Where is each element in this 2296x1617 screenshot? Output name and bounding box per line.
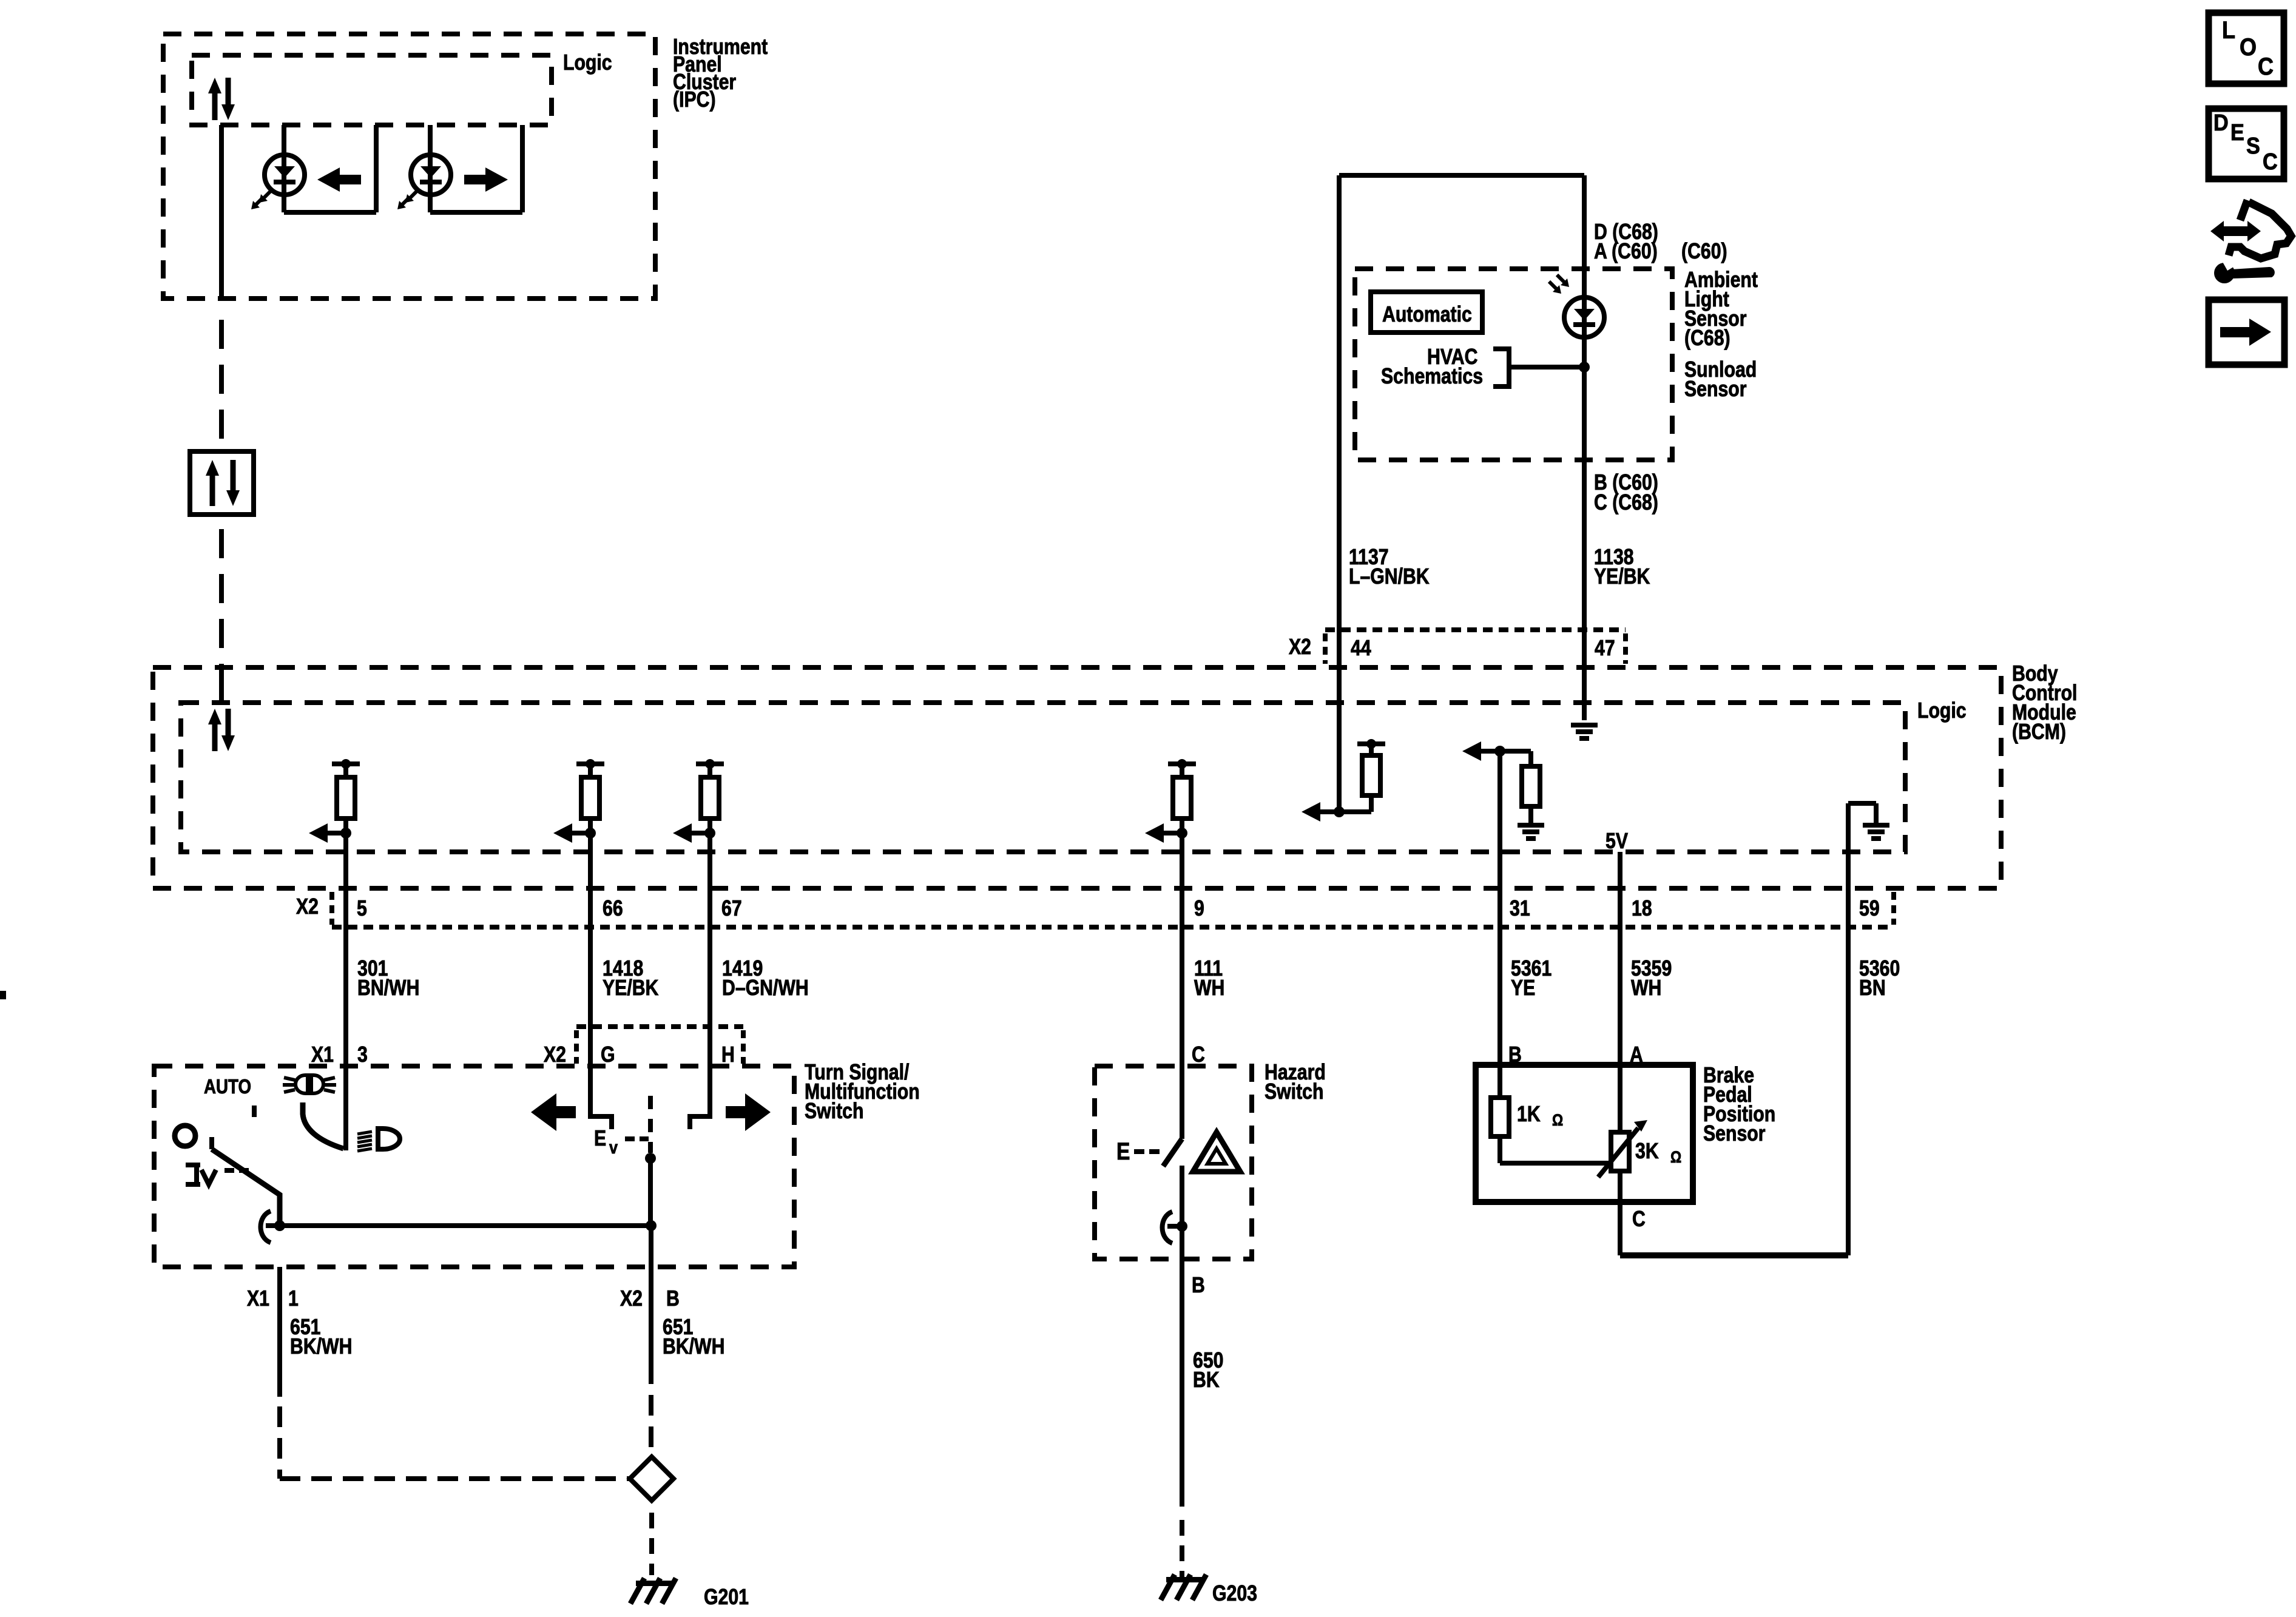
svg-text:YE/BK: YE/BK <box>1594 565 1650 589</box>
svg-text:1K: 1K <box>1517 1102 1541 1127</box>
hazard actuator dashes <box>1134 1149 1160 1154</box>
svg-text:C: C <box>1632 1207 1646 1232</box>
DESC icon box <box>2209 109 2284 179</box>
turn switch actuator dashed stem <box>648 1096 653 1153</box>
left turn LED emission arrows <box>251 191 271 209</box>
svg-text:67: 67 <box>721 897 742 921</box>
ground G203 <box>1161 1575 1206 1600</box>
G203 label <box>1212 1582 1257 1606</box>
pull-up resistor for pin 9 <box>1145 759 1196 843</box>
Sunload Sensor label <box>1684 358 1757 402</box>
3K ohm label <box>1635 1139 1681 1167</box>
wire 1418 label <box>603 957 658 1001</box>
svg-text:5: 5 <box>357 897 367 921</box>
pin 47 label <box>1595 636 1615 661</box>
svg-text:v: v <box>609 1137 618 1158</box>
connector separator left of pin 44 <box>1323 633 1328 664</box>
svg-text:G201: G201 <box>704 1585 749 1610</box>
wire 111 label <box>1194 957 1224 1001</box>
svg-text:(C68): (C68) <box>1684 326 1730 351</box>
3K potentiometer body <box>1611 1132 1629 1171</box>
wire from switch to X2 B <box>649 1226 653 1311</box>
turn switch centre post wire <box>648 1158 653 1226</box>
right turn indicator LED loop wire <box>430 125 522 212</box>
svg-text:X1: X1 <box>247 1287 269 1311</box>
svg-text:WH: WH <box>1194 976 1224 1001</box>
auto icon rays <box>283 1078 336 1092</box>
wire 5360 BN <box>1846 930 1851 1255</box>
right turn indicator LED <box>411 155 451 195</box>
X2 B connector labels <box>620 1287 680 1311</box>
pin 59 label <box>1859 897 1880 921</box>
headlamp switch common contact arc <box>261 1211 280 1243</box>
wire 5359 label <box>1631 957 1672 1001</box>
wire 650 solid segment <box>1180 1259 1184 1507</box>
IPC label text <box>673 35 768 112</box>
hazard warning triangle <box>1193 1132 1240 1172</box>
svg-text:A (C60): A (C60) <box>1594 240 1658 264</box>
wire 1138 label <box>1594 545 1650 589</box>
pin 59 internal ground wire <box>1848 803 1876 930</box>
pull-up resistor for pin 5 <box>309 759 360 843</box>
svg-text:C: C <box>1192 1043 1205 1067</box>
svg-text:18: 18 <box>1632 897 1652 921</box>
right turn indicator arrow symbol <box>464 167 508 192</box>
svg-text:YE: YE <box>1511 976 1535 1001</box>
svg-text:WH: WH <box>1631 976 1661 1001</box>
Hazard Switch label <box>1264 1061 1326 1104</box>
svg-text:L: L <box>2222 17 2235 44</box>
svg-text:59: 59 <box>1859 897 1880 921</box>
svg-text:O: O <box>2240 34 2257 61</box>
svg-text:Sensor: Sensor <box>1703 1122 1766 1146</box>
pull-up resistor for pin 66 <box>553 759 604 843</box>
X2 G H connector labels <box>544 1043 735 1067</box>
svg-text:X2: X2 <box>296 895 319 919</box>
svg-text:3: 3 <box>357 1043 368 1067</box>
wire 1137 L-GN/BK vertical <box>1337 175 1342 812</box>
serial data wire into BCM logic <box>219 665 224 704</box>
IPC serial data up/down arrows <box>208 78 235 120</box>
Brake Pedal Position Sensor box <box>1476 1065 1693 1202</box>
svg-text:D: D <box>2213 109 2229 135</box>
forward arrow icon box <box>2209 300 2284 365</box>
turn switch G fixed contact <box>590 1066 612 1129</box>
potentiometer wiper arrow <box>1598 1120 1647 1177</box>
BCM serial data up/down arrows <box>208 709 235 751</box>
connector separator right of pin 59 <box>1891 892 1896 925</box>
svg-text:H: H <box>721 1043 735 1067</box>
pin labels D (C68) / A (C60) <box>1594 220 1658 264</box>
Ambient Light Sensor (C68) label <box>1684 268 1758 351</box>
left turn arrow in switch <box>531 1093 576 1131</box>
BPPS pin B label <box>1508 1043 1522 1067</box>
svg-text:C (C68): C (C68) <box>1594 491 1658 515</box>
pin 31 label <box>1510 897 1530 921</box>
pin 67 label <box>721 897 742 921</box>
photodiode incoming light arrows <box>1549 275 1569 294</box>
svg-text:9: 9 <box>1194 897 1204 921</box>
wire 5360 label <box>1859 957 1900 1001</box>
turn switch actuator E icon <box>594 1127 618 1158</box>
pin 44 label <box>1351 636 1371 661</box>
low beam headlamp icon <box>357 1129 400 1151</box>
left turn indicator LED loop wire <box>284 125 376 212</box>
hazard contact junction <box>1177 1221 1187 1232</box>
actuator link dashes <box>625 1136 649 1141</box>
BPPS pin C label <box>1632 1207 1646 1232</box>
wire 651 BK/WH right label <box>663 1315 724 1359</box>
headlamp common junction <box>274 1220 285 1231</box>
Automatic HVAC callout box <box>1371 292 1482 333</box>
pin 9 label <box>1194 897 1204 921</box>
svg-text:Ω: Ω <box>1552 1111 1563 1129</box>
svg-text:44: 44 <box>1351 636 1371 661</box>
AUTO position contact curve <box>303 1102 343 1149</box>
wire from HVAC bracket to sensor node <box>1511 365 1584 370</box>
svg-text:Logic: Logic <box>1917 699 1967 723</box>
svg-text:X2: X2 <box>1289 635 1311 660</box>
svg-text:BK/WH: BK/WH <box>663 1335 724 1359</box>
wire A to pin C <box>1618 1171 1622 1255</box>
svg-text:Switch: Switch <box>1264 1080 1323 1104</box>
BCM Logic label <box>1917 699 1967 723</box>
hazard actuator E icon <box>1116 1138 1130 1164</box>
parking icon link dashes <box>225 1168 249 1173</box>
Body Control Module (BCM) outer dashed box <box>153 667 2001 888</box>
5V label <box>1606 829 1628 854</box>
pin 18 label <box>1632 897 1652 921</box>
svg-text:E: E <box>2230 119 2244 145</box>
wire 650 dashed segment <box>1180 1520 1184 1577</box>
svg-text:Logic: Logic <box>563 51 612 75</box>
right turn LED emission arrows <box>397 191 417 209</box>
svg-text:(BCM): (BCM) <box>2012 720 2066 744</box>
headlamp switch lever pivot tick <box>209 1137 214 1149</box>
AUTO label <box>204 1076 251 1098</box>
automatic headlamp icon <box>295 1075 323 1093</box>
1K ohm label <box>1517 1102 1563 1130</box>
wire 1418 YE/BK <box>588 833 593 1116</box>
BCM bottom connector dotted line X2 <box>332 925 1894 930</box>
svg-text:BK: BK <box>1193 1368 1220 1393</box>
svg-text:C: C <box>2263 148 2278 174</box>
svg-text:C: C <box>2258 53 2274 80</box>
svg-text:BK/WH: BK/WH <box>290 1335 352 1359</box>
connector (C60) label <box>1681 240 1727 264</box>
pin 44 internal junction with left arrow <box>1302 802 1345 822</box>
svg-text:AUTO: AUTO <box>204 1076 251 1098</box>
splice diamond S-point <box>630 1457 674 1501</box>
dashed wire to G201 <box>649 1513 654 1575</box>
hazard pin C label <box>1192 1043 1205 1067</box>
turn switch H fixed contact <box>690 1066 710 1129</box>
junction node on wire 1138 <box>1579 362 1590 373</box>
svg-text:G: G <box>601 1043 615 1067</box>
svg-text:31: 31 <box>1510 897 1530 921</box>
svg-text:BN/WH: BN/WH <box>357 976 419 1001</box>
right turn arrow in switch <box>726 1093 771 1131</box>
wire 1419 label <box>722 957 809 1001</box>
BCM Logic inner dashed box <box>181 703 1905 852</box>
in-line connector symbol box with up/down arrows <box>190 451 254 515</box>
wire 651 right dashed segment <box>649 1395 653 1457</box>
ground G201 <box>630 1578 676 1604</box>
wire 650 BK label <box>1193 1349 1223 1393</box>
wire 111 WH <box>1180 833 1184 1139</box>
serial data dashed wire upper <box>219 320 224 451</box>
svg-text:Switch: Switch <box>805 1099 863 1124</box>
svg-text:X2: X2 <box>544 1043 566 1067</box>
OFF position circle O <box>175 1126 195 1146</box>
svg-text:(C60): (C60) <box>1681 240 1727 264</box>
IPC Logic inner dashed box <box>192 55 552 125</box>
wire 1K to wiper <box>1500 1136 1613 1163</box>
headlamp switch lever <box>212 1149 280 1226</box>
wire 5359 WH (5V) <box>1618 852 1622 1135</box>
wire 301 label <box>357 957 419 1001</box>
svg-text:Schematics: Schematics <box>1381 365 1483 389</box>
hazard pin B label <box>1192 1274 1205 1298</box>
pin 47 internal ground <box>1571 723 1598 741</box>
wire 1137 label <box>1349 545 1430 589</box>
IPC Logic label <box>563 51 612 75</box>
wire 301 BN/WH <box>343 833 348 1150</box>
wire 1419 D-GN/WH <box>707 833 712 1116</box>
LOC icon box <box>2209 13 2284 84</box>
serial data wire from IPC logic <box>219 125 224 301</box>
svg-text:Ω: Ω <box>1670 1148 1681 1166</box>
svg-text:YE/BK: YE/BK <box>603 976 658 1001</box>
svg-text:(IPC): (IPC) <box>673 88 716 112</box>
svg-text:X2: X2 <box>620 1287 643 1311</box>
X1 3 connector labels <box>311 1043 368 1067</box>
connector separator right of pin 47 <box>1623 633 1628 664</box>
actuator pivot dot <box>645 1153 656 1164</box>
connector separator left of pin 5 <box>329 892 334 925</box>
position mark tick below AUTO <box>252 1106 257 1117</box>
wire 5361 label <box>1511 957 1551 1001</box>
svg-text:BN: BN <box>1859 976 1886 1001</box>
pin labels B (C60) / C (C68) <box>1594 471 1658 515</box>
svg-text:S: S <box>2246 132 2260 158</box>
Instrument Panel Cluster (IPC) outer dashed box <box>163 34 655 299</box>
wire 651 left dashed segment <box>280 1406 630 1479</box>
svg-text:3K: 3K <box>1635 1139 1659 1164</box>
svg-text:1: 1 <box>288 1287 299 1311</box>
pin 5 label <box>357 897 367 921</box>
pin 44 pull-up resistor branch <box>1339 739 1385 812</box>
connector X2 label (bottom) <box>296 895 319 919</box>
wire 651 BK/WH left label <box>290 1315 352 1359</box>
pin 59 ground symbol <box>1863 823 1889 841</box>
hazard lower wire <box>1180 1166 1184 1311</box>
svg-text:66: 66 <box>603 897 623 921</box>
Automatic label <box>1382 303 1472 327</box>
wire 1138 YE/BK vertical <box>1582 175 1587 720</box>
svg-text:G203: G203 <box>1212 1582 1257 1606</box>
serial data dashed wire lower <box>219 529 224 667</box>
left turn indicator LED <box>265 155 305 195</box>
G201 label <box>704 1585 749 1610</box>
parking lamp icon <box>186 1163 216 1187</box>
left turn indicator arrow symbol <box>317 167 361 192</box>
hand with double arrow and wrench icon <box>2210 200 2291 283</box>
BCM label text <box>2012 662 2077 744</box>
svg-text:Sensor: Sensor <box>1684 377 1747 402</box>
connector X2 label (top) <box>1289 635 1311 660</box>
svg-text:E: E <box>594 1127 606 1151</box>
Turn Signal/Multifunction Switch label <box>805 1061 920 1124</box>
HVAC off-page bracket <box>1493 349 1511 387</box>
X2 G H connector dotted line <box>576 1027 743 1064</box>
centre post junction <box>646 1220 657 1231</box>
X1 1 connector labels <box>247 1287 299 1311</box>
page edge speck <box>0 991 6 999</box>
Brake Pedal Position Sensor label <box>1703 1064 1775 1146</box>
switch common bus wire <box>280 1223 651 1228</box>
sensor supply loop top wire <box>1339 173 1584 178</box>
wire 5361 YE <box>1497 751 1502 1098</box>
wire 651 right solid segment <box>649 1311 653 1384</box>
svg-text:B: B <box>666 1287 680 1311</box>
svg-text:E: E <box>1116 1138 1130 1164</box>
svg-text:B: B <box>1192 1274 1205 1298</box>
pull-up resistor for pin 67 <box>673 759 724 843</box>
HVAC Schematics label <box>1381 345 1483 389</box>
BPPS pin A label <box>1630 1043 1643 1067</box>
Ambient Light Sensor dashed box <box>1355 269 1672 460</box>
hazard lower contact arc <box>1163 1212 1183 1243</box>
Turn Signal/Multifunction Switch dashed box <box>154 1066 794 1267</box>
hazard switch blade <box>1163 1139 1182 1166</box>
svg-text:47: 47 <box>1595 636 1615 661</box>
1K resistor <box>1491 1098 1509 1136</box>
wire 651 left solid segment <box>277 1267 282 1397</box>
svg-text:5V: 5V <box>1606 829 1628 854</box>
svg-text:D–GN/WH: D–GN/WH <box>722 976 809 1001</box>
svg-text:Automatic: Automatic <box>1382 303 1472 327</box>
pin 66 label <box>603 897 623 921</box>
svg-text:L–GN/BK: L–GN/BK <box>1349 565 1430 589</box>
pin 31 pull-down resistor to ground <box>1500 751 1544 841</box>
svg-text:X1: X1 <box>311 1043 334 1067</box>
sunload sensor photodiode <box>1564 297 1604 337</box>
wire 5360 routing to pin C <box>1620 1252 1848 1258</box>
BCM top connector dotted line X2 <box>1325 627 1626 632</box>
Hazard Switch dashed box <box>1095 1066 1252 1259</box>
pin 31 internal junction with left arrow <box>1462 741 1505 761</box>
